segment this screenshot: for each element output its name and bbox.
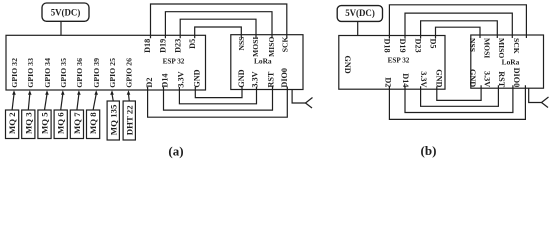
svg-text:DHT 22: DHT 22 [124,105,134,136]
svg-text:GND: GND [343,56,352,74]
svg-text:GPIO 33: GPIO 33 [26,58,35,88]
sensor box MQ 8 [87,110,100,139]
wire GND-GND (a) [195,87,242,98]
svg-text:MISO: MISO [267,37,276,57]
svg-text:ESP 32: ESP 32 [163,58,185,66]
5V(DC) power supply box (b) [337,6,382,22]
svg-text:D2: D2 [383,77,392,87]
svg-text:D5: D5 [429,39,438,49]
wire D2-DIO0 (b) [389,85,525,119]
svg-text:GND: GND [468,69,477,87]
svg-text:DIO0: DIO0 [280,68,289,88]
wire D23-MOSI (a) [180,19,256,38]
LoRa module rectangle (a) [231,35,303,90]
sensor box MQ 7 [70,110,83,139]
sensor box MQ 2 [6,110,19,139]
sensor box MQ 6 [54,110,67,139]
wire 3.3V-3.3V (b) [421,85,499,106]
svg-text:D19: D19 [398,39,407,53]
svg-text:MOSI: MOSI [483,38,492,58]
svg-text:3.3V: 3.3V [251,71,260,87]
wire MQ 7 to GPIO 36 [77,94,79,110]
svg-text:MQ 2: MQ 2 [7,112,17,134]
svg-text:GPIO 34: GPIO 34 [43,58,52,88]
antenna (a) [292,90,305,104]
svg-text:SCK: SCK [512,38,521,54]
sensor box MQ 135 [107,101,119,140]
svg-text:GPIO 36: GPIO 36 [75,58,84,88]
wire D14-RST (b) [405,85,513,112]
svg-text:MISO: MISO [497,38,506,58]
svg-text:GPIO 25: GPIO 25 [108,58,117,88]
ESP32 board rectangle (a) [6,35,206,90]
svg-text:(a): (a) [168,144,183,159]
wire D18-SCK (b) [389,5,526,39]
svg-text:D2: D2 [145,78,154,88]
svg-text:MQ 6: MQ 6 [56,112,66,134]
svg-text:D18: D18 [143,39,152,53]
svg-text:3.3V: 3.3V [177,71,186,87]
svg-text:3.3V: 3.3V [419,71,428,87]
svg-text:GPIO 32: GPIO 32 [10,58,19,88]
5V(DC) power supply box (a) [42,3,89,21]
svg-text:D5: D5 [188,39,197,49]
svg-text:NSS: NSS [237,37,246,51]
sensor box MQ 5 [38,110,51,139]
svg-text:MQ 3: MQ 3 [23,112,33,134]
svg-text:RST: RST [267,71,276,87]
wire GND-GND (b) [437,85,481,100]
svg-text:D14: D14 [401,73,410,87]
svg-text:MQ 135: MQ 135 [108,104,118,135]
svg-text:LoRa: LoRa [502,58,520,67]
svg-text:5V(DC): 5V(DC) [51,8,81,18]
wire MQ 2 to GPIO 32 [12,94,14,110]
wire D5-NSS (a) [195,27,242,38]
svg-text:D23: D23 [414,39,423,53]
wire MQ 8 to GPIO 39 [93,94,96,110]
svg-text:5V(DC): 5V(DC) [345,8,375,18]
wire D18-SCK (a) [151,4,287,38]
svg-text:MOSI: MOSI [251,37,260,57]
wire D14-RST (a) [164,87,273,111]
wire 3.3V-3.3V (a) [179,87,256,104]
svg-text:D18: D18 [383,39,392,53]
wire MQ 5 to GPIO 34 [45,94,48,110]
wire D19-MISO (a) [165,12,272,39]
svg-text:ESP 32: ESP 32 [388,56,410,64]
svg-text:3.3V: 3.3V [483,71,492,87]
wire D2-DIO0 (a) [148,87,288,118]
ESP32 board rectangle (b) [339,36,445,90]
svg-text:MQ 5: MQ 5 [40,112,50,134]
svg-text:(b): (b) [421,143,437,158]
wire MQ 135 to GPIO 25 [112,94,113,101]
svg-text:D23: D23 [174,39,183,53]
wire D23-MOSI (b) [421,21,498,39]
svg-text:GPIO 26: GPIO 26 [125,58,134,88]
svg-text:NSS: NSS [468,38,477,52]
svg-text:D14: D14 [161,73,170,87]
svg-text:GPIO 35: GPIO 35 [59,58,68,88]
svg-text:D19: D19 [159,39,168,53]
wire D5-NSS (b) [436,27,481,38]
svg-text:MQ 8: MQ 8 [88,112,98,134]
svg-text:GPIO 39: GPIO 39 [92,58,101,88]
sensor box DHT 22 [123,101,135,140]
wire MQ 3 to GPIO 33 [28,94,30,110]
sensor box MQ 3 [22,110,35,139]
LoRa module rectangle (b) [471,35,544,88]
antenna (b) [529,88,542,102]
wire DHT 22 to GPIO 26 [128,94,131,101]
wire 5V to ESP32 board (b) [357,21,359,35]
svg-text:GND: GND [435,69,444,87]
wire 5V to ESP32 board (a) [60,21,62,35]
svg-text:LoRa: LoRa [254,57,272,66]
wire D19-MISO (b) [405,13,512,38]
svg-text:GND: GND [193,69,202,87]
svg-text:SCK: SCK [280,37,289,53]
svg-text:MQ 7: MQ 7 [72,112,82,134]
wire MQ 6 to GPIO 35 [61,94,63,110]
svg-text:GND: GND [237,69,246,87]
svg-text:DIO0: DIO0 [512,68,521,88]
